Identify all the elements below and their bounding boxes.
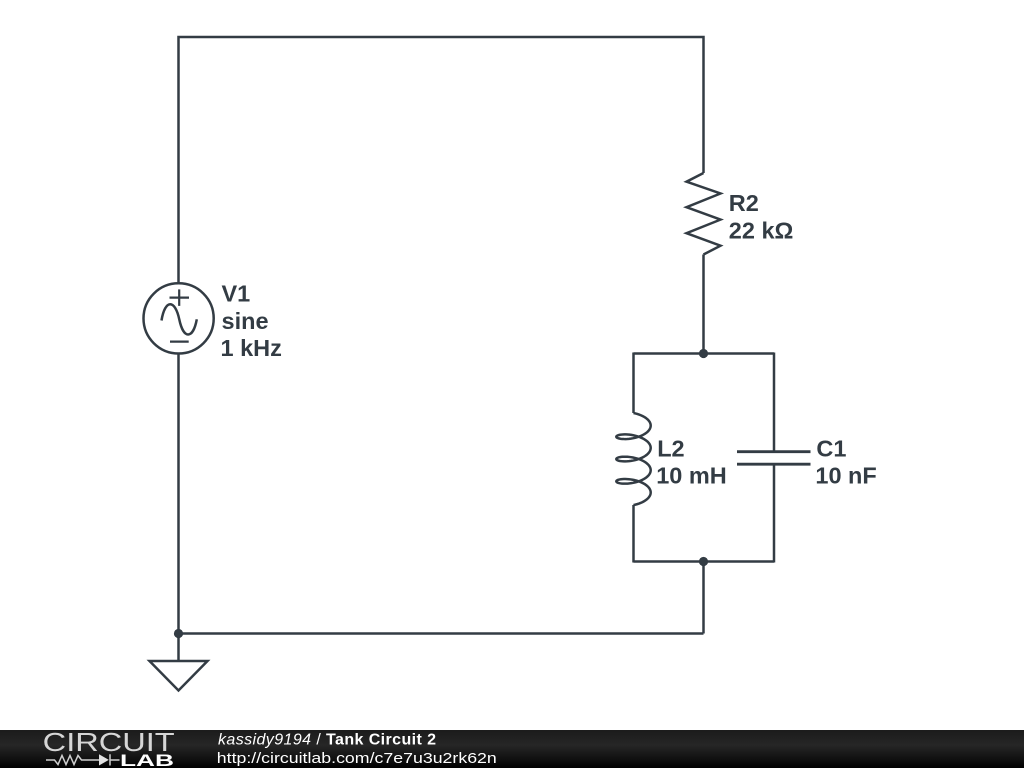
wire: R2 bottom to tank top node bbox=[702, 255, 705, 354]
svg-text:C1: C1 bbox=[816, 436, 846, 462]
wire: tank bottom node down to bottom rail bbox=[702, 562, 705, 634]
node: ground junction bbox=[174, 629, 183, 638]
resistor R2 bbox=[687, 173, 721, 255]
svg-text:L2: L2 bbox=[657, 436, 684, 462]
ground symbol bbox=[150, 661, 208, 691]
wire: tank right branch lower bbox=[773, 464, 776, 562]
voltage source V1 circle bbox=[144, 283, 214, 353]
svg-text:V1: V1 bbox=[222, 281, 251, 307]
wire: bottom rail bbox=[179, 632, 704, 635]
CircuitLab logo resistor-diode squiggle bbox=[46, 754, 120, 765]
svg-text:R2: R2 bbox=[729, 190, 759, 216]
wire: tank bottom horizontal bbox=[634, 560, 775, 563]
footer bar bbox=[0, 730, 1024, 768]
wire: tank left branch lower bbox=[632, 505, 635, 563]
V1 minus sign bbox=[170, 341, 189, 343]
svg-text:kassidy9194 / Tank Circuit 2: kassidy9194 / Tank Circuit 2 bbox=[218, 731, 436, 748]
capacitor C1 bbox=[737, 452, 811, 465]
V1 plus sign bbox=[170, 289, 190, 306]
svg-text:1 kHz: 1 kHz bbox=[221, 335, 282, 361]
svg-text:10 nF: 10 nF bbox=[815, 462, 876, 488]
svg-text:22 kΩ: 22 kΩ bbox=[729, 218, 794, 244]
inductor L2 bbox=[616, 413, 650, 505]
wire: tank left branch upper bbox=[632, 353, 635, 414]
node: tank top junction bbox=[699, 349, 708, 358]
wire: tank right branch upper bbox=[773, 353, 776, 452]
V1 sine wave bbox=[162, 304, 197, 334]
svg-text:10 mH: 10 mH bbox=[656, 462, 727, 488]
wire: V1 - terminal down to ground node bbox=[177, 354, 180, 634]
svg-text:LAB: LAB bbox=[120, 751, 174, 768]
ground stem bbox=[177, 634, 180, 662]
wire: tank top horizontal bbox=[634, 352, 775, 355]
node: tank bottom junction bbox=[699, 557, 708, 566]
svg-text:sine: sine bbox=[222, 308, 269, 334]
CircuitLab logo diode triangle bbox=[99, 754, 109, 765]
wire: V1 + terminal up, across top, down to R2 top bbox=[179, 37, 704, 284]
svg-text:http://circuitlab.com/c7e7u3u2: http://circuitlab.com/c7e7u3u2rk62n bbox=[217, 750, 497, 767]
